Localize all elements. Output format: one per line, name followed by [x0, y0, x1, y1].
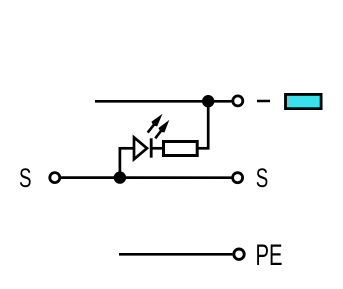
- node junction on S line: [114, 171, 126, 183]
- terminal circle top: [233, 96, 243, 106]
- terminal circle S left: [50, 173, 60, 183]
- cyan marking rectangle: [286, 94, 322, 108]
- LED light arrow 1: [148, 114, 163, 133]
- dash marker: [257, 100, 270, 103]
- LED cathode bar: [150, 138, 153, 157]
- wire PE line: [119, 253, 232, 256]
- wire S line: [61, 176, 232, 179]
- svg-text:S: S: [19, 163, 32, 193]
- LED light arrow 2: [155, 120, 169, 138]
- wire top rail: [95, 100, 208, 103]
- svg-text:S: S: [256, 163, 269, 193]
- wire LED anode: [119, 147, 135, 150]
- svg-text:PE: PE: [256, 239, 283, 272]
- wire resistor to vertical: [197, 147, 210, 150]
- resistor R: [164, 142, 198, 156]
- wire LED cathode to resistor: [151, 147, 164, 150]
- terminal circle S right: [233, 173, 243, 183]
- node junction on top rail: [202, 95, 214, 107]
- LED diode triangle: [134, 137, 147, 159]
- wire vertical LED branch to S line: [119, 147, 122, 178]
- wire vertical resistor to top rail: [207, 101, 210, 148]
- terminal circle PE: [234, 249, 244, 259]
- wire junction to terminal: [208, 100, 232, 103]
